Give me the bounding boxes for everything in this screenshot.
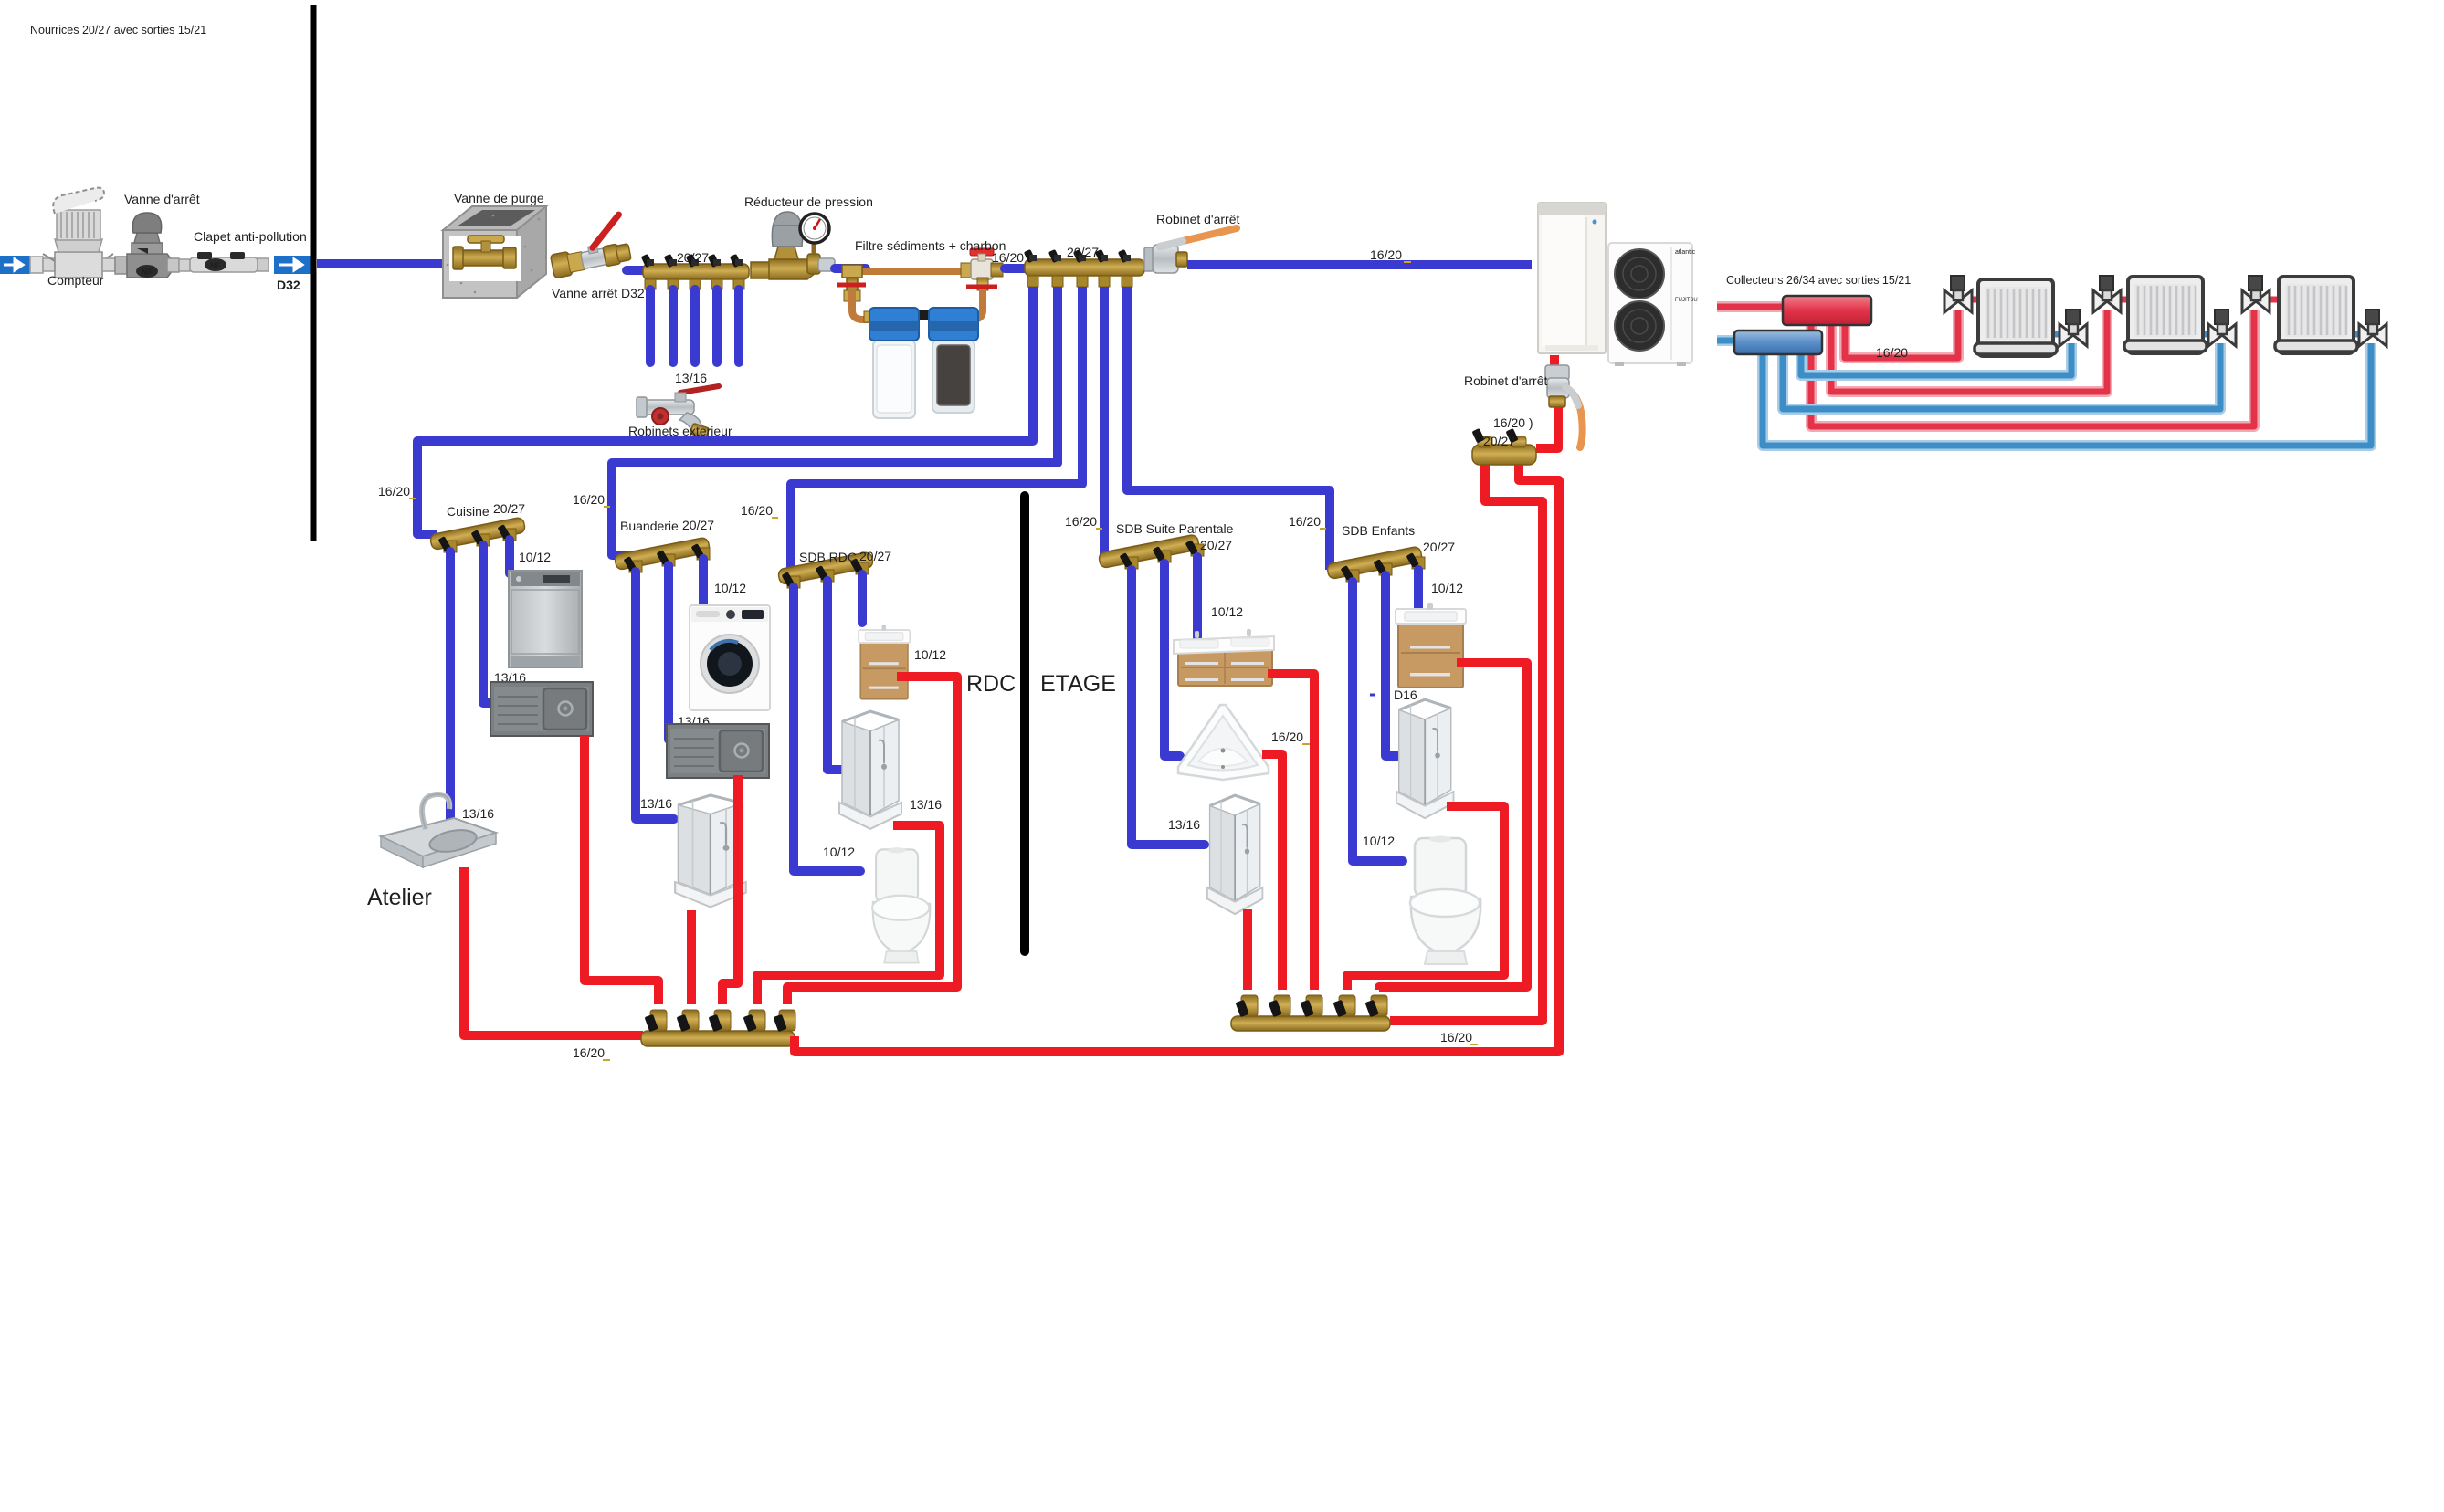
- wire: blue main to purge box: [317, 259, 446, 268]
- component: manifold SDB RDC 20/27: [777, 551, 873, 588]
- wire: radiator blue collector inlet: [1717, 335, 1740, 346]
- component: filter inlet tee valve: [837, 265, 866, 301]
- svg-text:Filtre sédiments + charbon: Filtre sédiments + charbon: [855, 238, 1006, 253]
- wire: cuisine drop to kitchen sink: [483, 545, 496, 703]
- svg-text:Robinet d'arrêt: Robinet d'arrêt: [1156, 212, 1240, 226]
- wire: hot red ETAGE manifold inlet to heat pump valve A: [1390, 464, 1543, 1021]
- wire: radiator R3 supply stub: [2261, 297, 2281, 303]
- svg-text:10/12: 10/12: [1363, 834, 1395, 848]
- component: blue collector 26/34: [1734, 331, 1822, 354]
- wire: sdb rdc drop to toilet 10/12: [794, 587, 860, 871]
- wire: radiator R3 return pipe: [1763, 343, 2371, 446]
- wire: manifold1 outlet drop 4: [712, 289, 722, 362]
- svg-text:atlantic: atlantic: [1675, 249, 1696, 256]
- svg-text:10/12: 10/12: [714, 581, 746, 595]
- component: valve Vanne d'arret (pressure type): [115, 213, 179, 278]
- wire: radiator R1 return stub: [2055, 331, 2066, 338]
- svg-text:20/27: 20/27: [1200, 538, 1232, 552]
- component: concrete box Vanne de purge: [443, 206, 546, 298]
- wire: manifold2 drop1 to Cuisine: [417, 287, 1033, 534]
- wire: hot red sdb rdc vanity to manifold v5: [787, 677, 957, 1004]
- wire: hot red sdb enfants vanity to etage manifold v5: [1379, 663, 1527, 990]
- wire: manifold2 drop2 to Buanderie: [612, 287, 1058, 555]
- svg-text:16/20: 16/20: [1065, 514, 1097, 529]
- component: sdb enfants toilet: [1410, 836, 1480, 965]
- wire: blue stub reducer to filter tee: [835, 264, 866, 273]
- svg-text:Buanderie: Buanderie: [620, 519, 679, 533]
- component: check valve Clapet anti-pollution: [179, 252, 269, 272]
- svg-text:NF: NF: [210, 261, 221, 270]
- wire: hot red buanderie shower to manifold v2: [687, 910, 696, 1004]
- wire: manifold1 outlet drop 1: [646, 289, 655, 362]
- component: radiator R1 return valve: [2059, 310, 2087, 346]
- component: radiator R1: [1975, 279, 2057, 356]
- component: sdb sp shower cabin: [1207, 795, 1263, 914]
- svg-text:16/20: 16/20: [573, 492, 605, 507]
- component: manifold SDB Enfants 20/27: [1326, 546, 1425, 582]
- wire: radiator R1 return pipe: [1801, 343, 2071, 375]
- wire: long blue 16/20 to heat pump: [1187, 260, 1532, 269]
- component: shutoff valve Robinet d'arret (heat pump, vertical): [1545, 365, 1583, 447]
- svg-text:16/20: 16/20: [992, 250, 1024, 265]
- svg-text:10/12: 10/12: [519, 550, 551, 564]
- component: radiator R3 return valve: [2359, 310, 2386, 346]
- wire: cuisine drop to Atelier sink 13/16: [446, 551, 455, 827]
- component: sdb sp double vanity: [1174, 629, 1274, 686]
- wire: radiator R2 supply pipe: [1831, 310, 2107, 392]
- wire: sdb rdc drop to vanity: [858, 574, 867, 623]
- wire: inlet blue arrow pipe: [0, 256, 30, 274]
- svg-text:ETAGE: ETAGE: [1040, 671, 1116, 697]
- component: radiator R2 return valve: [2208, 310, 2236, 346]
- svg-text:10/12: 10/12: [1211, 604, 1243, 619]
- wire: sdb rdc drop to shower: [827, 581, 842, 770]
- wire: radiator R2 supply stub: [2114, 297, 2130, 303]
- component: manifold Buanderie 20/27: [614, 537, 710, 572]
- svg-text:Nourrices 20/27 avec sorties 1: Nourrices 20/27 avec sorties 15/21: [30, 24, 206, 37]
- wire: hot red kitchen sink to manifold v1: [585, 736, 658, 1004]
- wire: sdb enfants drop to shower D16: [1385, 575, 1397, 756]
- wire: manifold1 outlet drop 3: [690, 289, 700, 362]
- component: kitchen grey sink: [490, 682, 593, 736]
- svg-text:20/27: 20/27: [1483, 434, 1515, 448]
- wire: hot red sdb rdc shower to manifold v4: [757, 825, 940, 1004]
- svg-text:D32: D32: [277, 278, 300, 292]
- svg-text:16/20: 16/20: [573, 1045, 605, 1060]
- svg-text:13/16: 13/16: [640, 796, 672, 811]
- svg-text:16/20: 16/20: [1440, 1030, 1472, 1045]
- svg-text:D16: D16: [1394, 688, 1417, 702]
- wire: buanderie drop to washing machine 10/12: [699, 559, 708, 605]
- component: heat pump indoor unit: [1538, 203, 1606, 353]
- component: Atelier stainless sink: [381, 794, 496, 867]
- wire: black divider RDC ETAGE: [1020, 496, 1029, 951]
- wire: manifold2 drop3 to SDB RDC: [791, 287, 1082, 568]
- component: pressure reducer Reducteur de pression: [751, 212, 835, 279]
- wire: buanderie drop to shower 13/16: [636, 572, 674, 819]
- svg-text:13/16: 13/16: [1168, 817, 1200, 832]
- component: washing machine: [690, 605, 770, 710]
- svg-text:16/20: 16/20: [741, 503, 773, 518]
- wire: sdb enfants drop to toilet 10/12: [1353, 582, 1403, 861]
- svg-text:Collecteurs 26/34 avec sorties: Collecteurs 26/34 avec sorties 15/21: [1726, 274, 1911, 287]
- wire: sdb sp drop to shower 13/16: [1132, 570, 1205, 845]
- component: dishwasher: [509, 571, 582, 667]
- component: radiator R1 supply valve: [1944, 276, 1972, 312]
- component: radiator R3: [2275, 277, 2357, 353]
- wire: hot red long run RDC manifold to heat pump valve B: [795, 464, 1559, 1052]
- svg-text:Cuisine: Cuisine: [447, 504, 490, 519]
- svg-text:16/20: 16/20: [1370, 247, 1402, 262]
- wire: outlet blue arrow pipe D32: [274, 256, 313, 274]
- wire: radiator R1 supply pipe: [1845, 310, 1958, 358]
- svg-text:16/20: 16/20: [1289, 514, 1321, 529]
- svg-text:16/20: 16/20: [1271, 730, 1303, 744]
- svg-text:20/27: 20/27: [1423, 540, 1455, 554]
- component: sdb enfants shower cabin: [1396, 699, 1454, 818]
- component: radiator R2: [2124, 277, 2207, 353]
- svg-text:10/12: 10/12: [914, 647, 946, 662]
- svg-text:16/20 ): 16/20 ): [1493, 415, 1533, 430]
- wire: sdb sp drop to corner bath: [1164, 563, 1180, 756]
- svg-text:Vanne de purge: Vanne de purge: [454, 191, 544, 205]
- wire: radiator R2 return pipe: [1783, 343, 2220, 409]
- wire: hot red sdb sp vanity to etage manifold v3: [1268, 674, 1314, 990]
- svg-text:20/27: 20/27: [682, 518, 714, 532]
- component: manifold Cuisine 20/27: [429, 517, 525, 552]
- wire: buanderie drop to grey sink: [669, 565, 678, 740]
- svg-text:SDB RDC: SDB RDC: [799, 550, 857, 564]
- wire: radiator R3 return stub: [2354, 331, 2365, 338]
- wire: blue stub into cold manifold 1: [627, 266, 647, 275]
- svg-text:20/27: 20/27: [677, 250, 709, 265]
- wire: radiator R3 supply pipe: [1811, 310, 2254, 426]
- svg-text:Compteur: Compteur: [47, 273, 104, 288]
- component: corner bath: [1178, 705, 1269, 780]
- component: filter outlet valve 16/20: [961, 248, 1003, 290]
- component: shutoff valve Robinet d'arret (chrome, orange handle): [1144, 228, 1237, 273]
- component: buanderie shower cabin: [675, 795, 746, 908]
- wire: hot red atelier sink to RDC hot manifold inlet: [464, 867, 643, 1035]
- wire: hot red corner bath to etage manifold v2: [1262, 754, 1282, 990]
- svg-text:Réducteur de pression: Réducteur de pression: [744, 194, 873, 209]
- component: sdb rdc shower cabin: [839, 711, 901, 829]
- svg-text:Clapet anti-pollution: Clapet anti-pollution: [194, 229, 307, 244]
- component: exterior faucet Robinets exterieur: [637, 386, 719, 438]
- svg-text:13/16: 13/16: [462, 806, 494, 821]
- component: hot manifold 2-port (heat pump): [1472, 428, 1536, 465]
- svg-text:Vanne arrêt D32: Vanne arrêt D32: [552, 286, 645, 300]
- component: buanderie grey sink: [667, 724, 769, 778]
- svg-text:Robinets exterieur: Robinets exterieur: [628, 424, 732, 438]
- component: manifold SDB Suite Parentale 20/27: [1098, 534, 1204, 569]
- svg-text:Vanne d'arrêt: Vanne d'arrêt: [124, 192, 200, 206]
- svg-text:20/27: 20/27: [1067, 245, 1099, 259]
- component: cold manifold 2 (20/27 5 outlets): [1024, 249, 1144, 287]
- svg-text:Robinet d'arrêt: Robinet d'arrêt: [1464, 373, 1548, 388]
- wire: manifold1 outlet drop 2: [669, 289, 678, 362]
- component: radiator R2 supply valve: [2093, 276, 2121, 312]
- component: sdb rdc vanity: [859, 625, 910, 699]
- wire: manifold2 drop4 to SDB Suite Parentale: [1100, 287, 1109, 562]
- svg-text:NF: NF: [142, 268, 153, 277]
- component: water meter Compteur: [30, 188, 115, 278]
- svg-text:20/27: 20/27: [493, 501, 525, 516]
- svg-text:20/27: 20/27: [859, 549, 891, 563]
- wire: radiator R1 supply stub: [1965, 297, 1980, 303]
- wire: copper pipe over filters: [859, 268, 1003, 275]
- component: filter sediments + charbon twin unit: [852, 289, 983, 418]
- component: radiator R3 supply valve: [2242, 276, 2270, 312]
- component: sdb enfants vanity: [1396, 603, 1466, 688]
- wire: radiator R2 return stub: [2203, 331, 2214, 338]
- component: hot manifold RDC (5 valves): [641, 1010, 795, 1046]
- svg-text:RDC: RDC: [966, 671, 1016, 697]
- wire: black divider wall line: [311, 5, 317, 541]
- svg-text:SDB Suite Parentale: SDB Suite Parentale: [1116, 521, 1234, 536]
- wire: sdb sp drop to double vanity 10/12: [1193, 557, 1202, 639]
- svg-text:10/12: 10/12: [1431, 581, 1463, 595]
- svg-text:13/16: 13/16: [675, 371, 707, 385]
- svg-text:16/20: 16/20: [378, 484, 410, 499]
- svg-text:10/12: 10/12: [823, 845, 855, 859]
- wire: hot red buanderie sink to manifold v3: [722, 775, 738, 1004]
- wire: sdb enfants drop to vanity 10/12: [1414, 570, 1423, 609]
- wire: manifold2 drop5 to SDB Enfants: [1127, 287, 1330, 570]
- component: cold manifold 1 (20/27 5 outlets): [641, 254, 749, 289]
- wire: hot red sdb enfants shower to etage manifold v4: [1347, 806, 1504, 990]
- component: heat pump outdoor unit: [1608, 243, 1698, 366]
- wire: blue stub into cold manifold 2: [1005, 264, 1030, 273]
- wire: cuisine drop to dishwasher 10/12: [505, 540, 514, 573]
- svg-text:16/20: 16/20: [1876, 345, 1908, 360]
- wire: hot red sdb sp shower to etage manifold v1: [1243, 909, 1252, 990]
- component: sdb rdc toilet: [872, 847, 930, 962]
- wire: hot red stub above robinet (from heat pump): [1550, 355, 1559, 369]
- component: valve Vanne arret D32: [545, 214, 632, 278]
- wire: manifold1 outlet drop 5: [734, 289, 743, 362]
- svg-text:13/16: 13/16: [910, 797, 942, 812]
- svg-text:Atelier: Atelier: [367, 885, 432, 910]
- wire: radiator red collector inlet: [1717, 301, 1783, 312]
- svg-text:SDB Enfants: SDB Enfants: [1342, 523, 1415, 538]
- component: hot manifold ETAGE (5 valves): [1231, 995, 1390, 1031]
- wire: hot red robinet to 2-port manifold: [1536, 403, 1558, 448]
- component: red collector 26/34: [1783, 296, 1871, 325]
- svg-text:FUJITSU: FUJITSU: [1675, 298, 1698, 303]
